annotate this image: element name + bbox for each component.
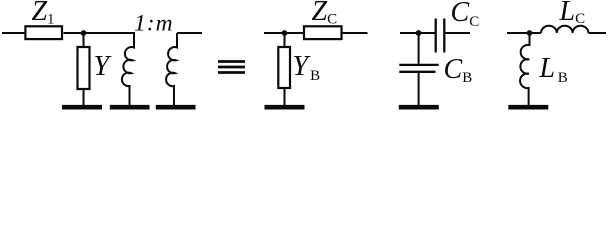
wire: left port of third network [400,32,435,34]
svg-text:LB: LB [539,53,568,86]
resistor Y (shunt) [78,47,90,89]
capacitor CB top plate [399,64,438,66]
capacitor CC (series) left plate [435,19,437,53]
wire: node down to CB [418,33,420,64]
wire: node down to YB [284,33,286,46]
svg-text:ZC: ZC [312,0,338,27]
inductor: transformer primary winding [122,33,134,105]
svg-text:LC: LC [559,0,586,27]
equivalence sign [218,62,245,73]
wire: right port of first network [177,32,202,34]
wire: left port of fourth network [507,32,541,34]
wire: left port of first network [2,32,25,34]
resistor ZC (series) [304,26,342,39]
wire: node down to Y [83,33,85,46]
ground under primary [110,105,150,110]
svg-text:1:m: 1:m [134,11,174,37]
wire: right port of third network [446,32,471,34]
resistor YB (shunt) [278,47,290,88]
inductor: transformer secondary winding [166,33,177,105]
ground under LB [508,105,548,110]
node B: junction dot [282,30,288,36]
svg-text:YB: YB [293,51,321,84]
ground under CB [399,105,439,110]
wire: left port of second network [264,32,303,34]
wire: Y to ground [83,90,85,105]
svg-text:Y: Y [94,51,113,82]
ground under YB [265,105,305,110]
ground under secondary [156,105,196,110]
node D: junction dot [527,30,533,36]
svg-text:CC: CC [451,0,480,30]
wire: Z1 to transformer top corner [64,32,136,34]
capacitor CB bottom plate [399,71,435,73]
ground under Y [62,105,102,110]
wire: YB to ground [284,89,286,105]
resistor Z1 [25,26,62,39]
wire: CB to ground [418,73,420,105]
wire: right port of fourth network [589,32,607,34]
capacitor CC right plate [443,19,445,53]
inductor LB (shunt) [520,33,529,105]
inductor LC (series) [541,26,588,33]
wire: right port of second network [342,32,368,34]
svg-text:Z1: Z1 [32,0,55,28]
svg-text:CB: CB [444,54,473,86]
node A: junction dot [81,30,87,36]
node C: junction dot [416,30,422,36]
